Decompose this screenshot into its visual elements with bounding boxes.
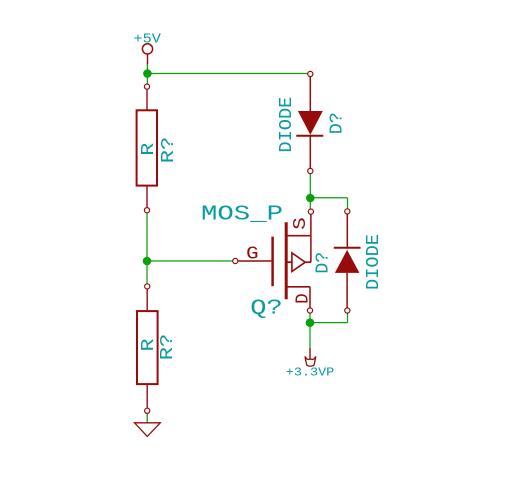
svg-text:D?: D? xyxy=(314,252,334,274)
svg-text:R?: R? xyxy=(158,334,178,361)
svg-text:G: G xyxy=(246,245,259,265)
svg-text:R: R xyxy=(139,338,159,351)
svg-text:+5V: +5V xyxy=(133,33,162,48)
svg-text:Q?: Q? xyxy=(250,297,283,320)
svg-text:R?: R? xyxy=(159,137,179,164)
svg-text:+3.3VP: +3.3VP xyxy=(286,365,335,379)
svg-text:D: D xyxy=(293,293,313,304)
svg-text:MOS_P: MOS_P xyxy=(201,204,283,227)
svg-text:R: R xyxy=(139,142,159,155)
svg-text:D?: D? xyxy=(327,112,347,134)
svg-text:S: S xyxy=(291,217,311,230)
svg-text:DIODE: DIODE xyxy=(277,97,297,153)
svg-text:DIODE: DIODE xyxy=(364,234,384,290)
